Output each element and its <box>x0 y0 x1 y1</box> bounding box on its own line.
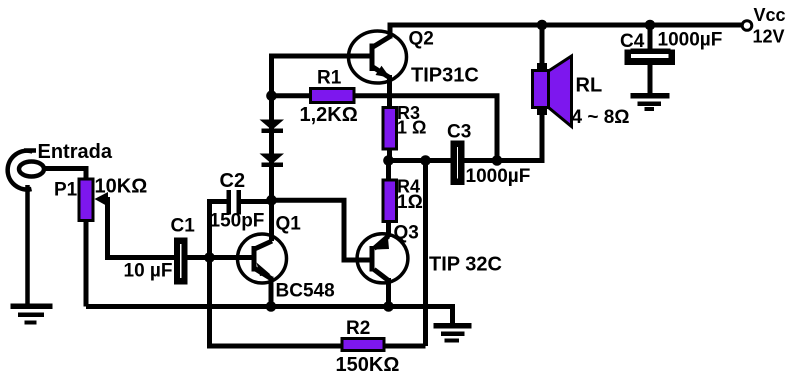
diode D1 <box>260 120 285 134</box>
svg-text:150pF: 150pF <box>210 211 265 232</box>
wire output node down to R2 right <box>423 161 428 347</box>
svg-text:TIP31C: TIP31C <box>411 64 479 86</box>
svg-text:BC548: BC548 <box>276 281 335 302</box>
resistor R2 <box>342 339 384 351</box>
capacitor C3 <box>451 141 465 186</box>
svg-text:R1: R1 <box>317 68 342 89</box>
wire speaker top to rail <box>540 25 545 65</box>
transistor Q3 <box>357 234 408 283</box>
wire R1 right lead to output drop <box>354 96 497 161</box>
wire Q3 collector <box>386 278 391 307</box>
wire Q1 collector <box>269 200 274 241</box>
svg-text:RL: RL <box>576 75 603 97</box>
input jack connector (Entrada) <box>8 151 44 190</box>
wire diode chain vertical <box>269 96 274 201</box>
svg-text:10KΩ: 10KΩ <box>95 176 148 198</box>
resistor R3 <box>383 108 397 150</box>
svg-text:1,2KΩ: 1,2KΩ <box>300 104 358 126</box>
transistor Q1 <box>238 234 287 283</box>
svg-text:C3: C3 <box>447 121 471 142</box>
node R3/R4 output junction <box>383 155 394 166</box>
svg-text:Vcc: Vcc <box>754 5 786 25</box>
ground (C4) <box>631 93 670 111</box>
wire Q1 emitter <box>269 277 274 307</box>
wire R3 bottom to output node <box>387 149 392 161</box>
svg-text:1000µF: 1000µF <box>466 166 531 187</box>
svg-text:C1: C1 <box>171 216 196 237</box>
resistor R4 <box>383 180 397 222</box>
svg-text:1000µF: 1000µF <box>658 30 723 51</box>
svg-text:TIP 32C: TIP 32C <box>429 254 502 276</box>
node C1/Q1 base junction <box>204 252 215 263</box>
svg-text:R2: R2 <box>346 318 370 339</box>
svg-text:P1: P1 <box>54 180 78 201</box>
svg-text:Q3: Q3 <box>394 223 419 244</box>
svg-text:150KΩ: 150KΩ <box>336 354 400 376</box>
Vcc terminal <box>742 21 752 31</box>
wire R1 left lead <box>272 93 311 98</box>
wire Q2 base run down to R1 node <box>272 56 372 96</box>
svg-text:1 Ω: 1 Ω <box>397 118 426 138</box>
diode D2 <box>260 154 285 168</box>
P1 wiper arrow <box>95 192 109 207</box>
bottom ground rail wire <box>86 307 453 324</box>
wire C4 bottom to ground <box>648 65 653 93</box>
wire jack to P1 top <box>45 169 87 182</box>
top Vcc rail wire <box>388 23 743 28</box>
svg-text:Q1: Q1 <box>276 214 302 235</box>
wire junction up to C2 left <box>210 202 228 258</box>
wire jack sleeve to ground <box>25 185 30 304</box>
node C4 rail junction <box>645 20 656 31</box>
capacitor C1 <box>174 238 188 285</box>
wire Q2 emitter to R3 <box>387 75 392 108</box>
wire C4 top lead <box>648 25 653 49</box>
wire Q2 collector to rail <box>388 23 393 39</box>
wire junction down to R2 left <box>210 258 343 347</box>
svg-text:10 µF: 10 µF <box>124 261 173 282</box>
svg-text:Q2: Q2 <box>409 29 434 50</box>
ground (input) <box>11 304 53 325</box>
node Q1 emitter junction <box>266 301 277 312</box>
svg-text:Entrada: Entrada <box>38 141 113 163</box>
wire R2 right lead <box>384 344 426 349</box>
node speaker top rail junction <box>537 20 548 31</box>
wire C3 right to speaker <box>465 113 543 161</box>
node R1/diode top junction <box>266 90 277 101</box>
capacitor C4 <box>625 49 676 66</box>
node R2 drop junction <box>420 155 431 166</box>
svg-text:C4: C4 <box>620 31 645 52</box>
ground (center) <box>434 323 472 343</box>
wire P1 wiper to C1 <box>105 200 175 258</box>
wire C2 right to diode node <box>241 199 272 204</box>
potentiometer P1 <box>79 179 93 221</box>
wire C1 to Q1 base <box>188 255 255 260</box>
svg-text:4 ~ 8Ω: 4 ~ 8Ω <box>572 107 630 128</box>
speaker RL <box>533 56 572 127</box>
wire R4 bottom to Q3 emitter <box>386 221 391 237</box>
svg-text:1Ω: 1Ω <box>397 192 423 213</box>
capacitor C2 <box>227 190 242 215</box>
wire junction to Q3 base <box>272 200 373 260</box>
wire R4 top lead <box>386 161 391 181</box>
node speaker/C3 junction <box>492 155 503 166</box>
wire output node to C3 <box>389 158 451 163</box>
resistor R1 <box>311 89 355 103</box>
transistor Q2 <box>349 31 407 83</box>
svg-text:C2: C2 <box>220 170 246 192</box>
node diode bottom / Q1 collector junction <box>266 195 277 206</box>
wire P1 bottom to bottom rail <box>84 219 89 307</box>
svg-text:12V: 12V <box>753 27 785 47</box>
node Q3 collector junction <box>383 301 394 312</box>
